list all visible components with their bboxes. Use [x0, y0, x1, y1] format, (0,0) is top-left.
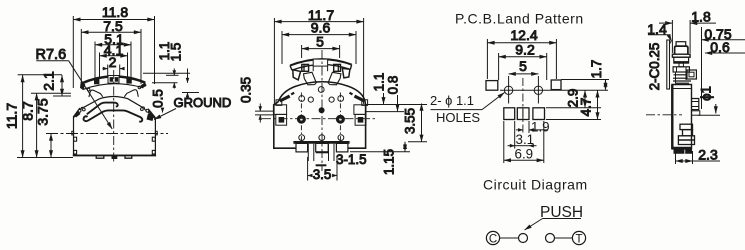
body outline view2: [274, 101, 366, 149]
svg-text:3.75: 3.75: [35, 98, 51, 125]
svg-text:C: C: [489, 233, 497, 245]
lever lower edge horns: [89, 90, 138, 97]
label R7.6 with leader: [36, 47, 113, 129]
dim 1.8 (side top): [659, 9, 716, 54]
rivet left view2: [297, 115, 306, 124]
svg-text:8.7: 8.7: [20, 101, 36, 121]
dim 4.1: [100, 42, 128, 77]
terminal C: [486, 231, 499, 245]
pad top-left: [486, 81, 498, 91]
dim 3.55 (view2 right): [403, 104, 428, 142]
body chevron slot lower stroke: [84, 110, 143, 121]
dim 7.5: [81, 18, 141, 86]
svg-text:3.5: 3.5: [313, 167, 332, 182]
dim 11.8: [73, 4, 154, 88]
dome hatch left: [280, 93, 294, 101]
lever window left: [302, 64, 309, 71]
svg-text:4.7: 4.7: [579, 98, 594, 117]
lever left tooth: [94, 79, 99, 85]
body outline view1: [73, 97, 156, 156]
side stem: [673, 63, 689, 72]
svg-text:P.C.B.Land Pattern: P.C.B.Land Pattern: [455, 11, 584, 27]
lever tip hole left: [87, 88, 90, 91]
label 2-phi1.1 HOLES with leader: [430, 93, 505, 126]
centerline horizontal view2: [262, 118, 376, 120]
dim 1.1 (view1 right): [143, 42, 190, 89]
dim 5 (pcb): [509, 58, 539, 74]
lever arc (top actuator): [81, 76, 145, 89]
rivet axis dashed right: [339, 93, 341, 144]
lever cap view2: [290, 59, 352, 85]
svg-text:2: 2: [109, 54, 117, 70]
dim 12.4: [487, 27, 556, 79]
dim 6.9: [504, 121, 544, 163]
side inner details: [673, 124, 695, 148]
side right box: [687, 70, 696, 79]
center rivet view2: [319, 107, 325, 113]
bottom pads view2: [296, 143, 348, 152]
dim 2.1: [41, 71, 72, 96]
wire contact to T: [555, 237, 573, 239]
dim 1.15 (view2 right): [350, 142, 410, 175]
svg-text:11.7: 11.7: [4, 103, 20, 129]
svg-text:1.8: 1.8: [691, 9, 711, 25]
svg-text:HOLES: HOLES: [436, 110, 480, 125]
lever center tab: [108, 76, 119, 84]
lever tip hole right: [138, 86, 141, 89]
dome arc view2: [278, 82, 365, 102]
svg-text:GROUND: GROUND: [174, 95, 232, 110]
lever right tooth: [126, 78, 131, 83]
label PUSH with leader: [525, 204, 584, 230]
dim 8.7: [20, 93, 72, 157]
dim 3.1: [508, 121, 537, 149]
hole right: [534, 76, 542, 104]
small holes view2: [299, 87, 344, 141]
side knob: [672, 42, 690, 63]
side back plate: [667, 40, 672, 89]
svg-text:5: 5: [316, 34, 324, 50]
lever leg right: [328, 72, 341, 85]
svg-text:1.15: 1.15: [382, 149, 397, 175]
dim 5.1: [95, 31, 131, 79]
side bottom feet: [674, 149, 692, 153]
svg-text:1.5: 1.5: [169, 43, 184, 62]
svg-text:Circuit Diagram: Circuit Diagram: [483, 177, 588, 193]
side right tab: [692, 99, 699, 110]
centerline side: [646, 114, 682, 116]
contact right: [546, 234, 555, 243]
dim 0.75 (side): [702, 26, 745, 109]
dim 5 (view2): [302, 34, 340, 59]
svg-text:2.3: 2.3: [698, 147, 718, 163]
bottom bar view2: [293, 141, 349, 144]
side body block: [672, 85, 692, 149]
svg-text:0.5: 0.5: [151, 89, 166, 108]
rivet axis dashed left: [300, 93, 302, 144]
pad mid-center (split): [517, 108, 529, 120]
svg-text:3.55: 3.55: [403, 108, 418, 134]
lever window right: [334, 64, 341, 71]
dim 2: [103, 54, 125, 76]
dim phi1 (side): [698, 86, 720, 115]
holes axis horizontal: [500, 89, 608, 91]
bottom foot right: [125, 156, 132, 158]
centerline vertical view2: [321, 50, 323, 171]
left tab boxes view2: [273, 105, 286, 125]
dim 11.7 (left): [4, 75, 74, 158]
rivet right view2: [336, 115, 345, 124]
svg-text:9.2: 9.2: [515, 42, 535, 58]
centerline vertical view1: [113, 70, 115, 164]
dim 2.9 (pcb right): [546, 89, 601, 108]
wire C to contact: [500, 237, 519, 239]
hole left: [504, 76, 512, 104]
dim 11.7 (view2 top): [274, 7, 363, 104]
pad top-right: [551, 80, 561, 90]
svg-text:2.1: 2.1: [41, 71, 57, 91]
svg-text:5: 5: [519, 58, 527, 74]
lever leg left: [304, 72, 317, 85]
body right edge tabs: [152, 131, 157, 154]
dim 1.4 (side): [647, 21, 671, 41]
centerline horizontal view1: [46, 133, 168, 135]
svg-text:2- ɸ 1.1: 2- ɸ 1.1: [430, 93, 474, 108]
dim 0.5 (view1): [151, 89, 166, 112]
svg-text:3.1: 3.1: [516, 132, 535, 147]
side phi1 pin: [692, 111, 700, 115]
pad mid-right: [533, 108, 545, 120]
body left shoulder mark: [75, 112, 81, 118]
svg-text:2-C0.25: 2-C0.25: [647, 43, 662, 91]
body left edge tabs: [72, 131, 77, 154]
lever foot right: [342, 68, 350, 78]
pad mid-left: [504, 108, 515, 120]
right tab boxes view2: [354, 105, 366, 125]
label GROUND with leader: [154, 95, 231, 120]
lever left tip black: [80, 83, 85, 91]
dim 1.1 (view2 right): [366, 73, 427, 105]
bottom foot left: [96, 156, 104, 158]
svg-text:1.1: 1.1: [372, 73, 387, 92]
bottom foot center (black): [112, 156, 118, 159]
terminal T: [572, 231, 585, 245]
dim 9.2: [499, 42, 547, 81]
dim 3.75: [35, 98, 52, 157]
svg-text:3-1.5: 3-1.5: [336, 152, 367, 167]
contact left: [519, 234, 528, 243]
svg-text:T: T: [575, 233, 582, 245]
dim 1.7 (pcb right): [561, 60, 609, 91]
dome end box left: [276, 100, 282, 106]
body right shoulder black mark: [147, 114, 155, 122]
lever foot left: [293, 70, 301, 80]
lever cap notch: [313, 59, 327, 71]
lever right tip black: [141, 83, 147, 89]
svg-text:6.9: 6.9: [515, 147, 534, 162]
body slope holes: [78, 108, 149, 113]
dim 9.6: [282, 20, 356, 65]
svg-text:ɸ1: ɸ1: [699, 86, 714, 101]
dim 2.3 (side bottom): [676, 147, 721, 165]
dim 0.8 (view2 right): [366, 76, 404, 112]
dome hatch right: [350, 93, 365, 101]
dim 3.5 (view2 bottom): [308, 157, 337, 182]
dim 0.35: [239, 77, 274, 123]
dim 0.6 (side): [705, 39, 745, 55]
side ladder details: [673, 72, 691, 83]
dome end box right: [362, 100, 368, 106]
dim 4.7 (pcb right): [546, 90, 601, 119]
svg-text:1.7: 1.7: [589, 60, 604, 79]
body chevron slot upper stroke: [87, 103, 118, 115]
svg-text:0.35: 0.35: [239, 77, 254, 103]
svg-text:0.8: 0.8: [386, 76, 401, 95]
dim 1.9: [516, 120, 550, 135]
center axis dashed (pcb): [522, 78, 524, 135]
legs view2: [308, 144, 334, 166]
dim 1.5 (view1 right): [169, 43, 200, 98]
